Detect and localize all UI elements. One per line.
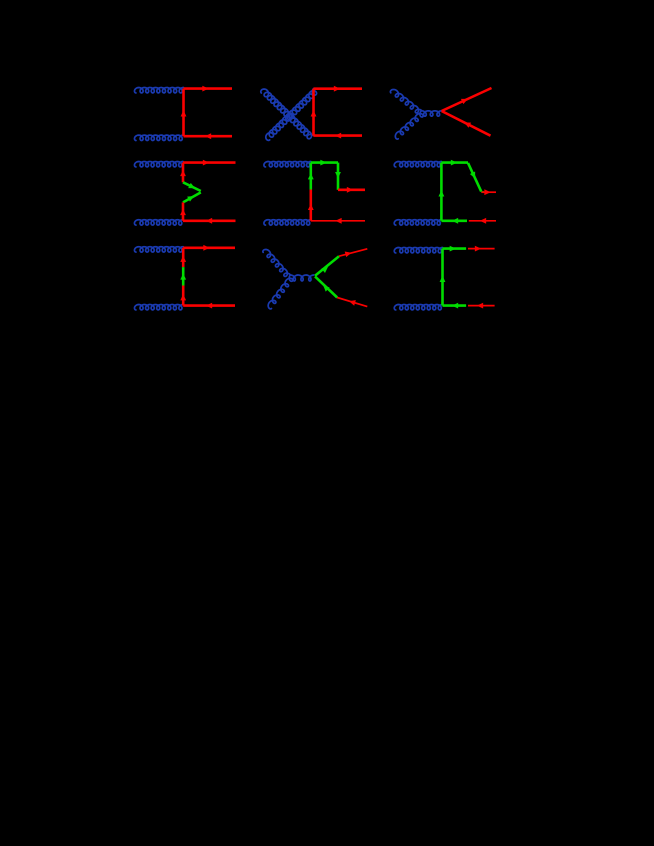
gluon g1 in (R3C2 upper-left) [263, 249, 290, 276]
outgoing antiquark (R1C2 bottom) [314, 134, 363, 137]
arrow down (R2C2 green vertical) [335, 172, 341, 178]
outgoing antiquark (R1C1 bottom) [184, 135, 233, 138]
gluon g2 in (R2C3 bottom) [394, 220, 441, 225]
outgoing quark (R2C2 middle red) [338, 189, 365, 192]
propagator (R2C3 left vertical green) [440, 163, 443, 221]
arrow up (R2C1 vertical upper) [180, 170, 186, 176]
gluon g2 in (R2C2 bottom) [264, 220, 311, 225]
arrow right (R2C3 green top) [451, 160, 457, 166]
propagator lower (R2C2 left vertical red) [309, 190, 312, 221]
arrow up (R1C2 vertical) [311, 110, 317, 116]
quark line top (R2C2 green horizontal) [311, 161, 338, 164]
outgoing antiquark (R3C2 red lower) [337, 298, 367, 307]
arrow left (R1C1 bottom) [205, 133, 211, 139]
quark propagator (R1C1 vertical) [182, 89, 185, 137]
gluon g1 in (R1C2 upper-left to lower-right) [261, 89, 314, 139]
arrow down-right (R2C3 green diagonal) [470, 172, 475, 179]
quark kink lower (R2C1 green) [183, 192, 201, 202]
outgoing quark (R2C3 middle red) [482, 191, 497, 193]
quark propagator lower (R2C1 vertical) [182, 202, 185, 220]
arrow left (R3C1 bottom) [206, 303, 212, 309]
arrow right (R3C1 top) [203, 245, 209, 251]
gluon g2 in (R3C2 lower-left) [268, 275, 293, 309]
arrow right (R2C2 green top) [320, 160, 326, 166]
outgoing quark (R3C1 top) [183, 247, 235, 250]
arrow left (R3C3 bottom red) [477, 303, 483, 309]
gluon g1 in (R2C1 top) [134, 162, 183, 167]
outgoing quark (R2C1 top) [183, 161, 236, 164]
quark line top (R2C3 green horizontal) [441, 161, 468, 164]
gluon g2 in (R1C3 lower-left) [395, 111, 423, 140]
arrow right (R2C2 middle) [347, 187, 353, 193]
arrow right (R3C3 green top) [450, 246, 456, 252]
quark stub (R2C3 green) [481, 191, 484, 193]
quark propagator (R1C2 vertical) [312, 89, 315, 136]
gluon g1 in (R2C3 top) [394, 162, 441, 167]
gluon g2 in (R1C1 bottom) [134, 135, 183, 140]
quark line right (R2C2 green vertical) [337, 163, 340, 190]
gluon g1 in (R1C3 upper-left) [390, 89, 421, 113]
outgoing quark (R3C3 top red) [468, 248, 495, 250]
arrow left (R2C3 green bottom) [452, 218, 458, 224]
arrow left (R2C1 bottom) [206, 218, 212, 224]
arrow up-right (R2C1 kink lower) [187, 196, 194, 202]
quark propagator upper (R2C1 vertical) [182, 163, 185, 183]
quark propagator (R3C3 vertical green) [441, 249, 444, 306]
quark line bottom (R2C3 green horizontal) [441, 220, 467, 223]
arrow up (R3C3 vertical) [440, 276, 446, 282]
arrow up-right (R3C2 green upper) [321, 267, 328, 273]
arrow up-right (R3C2 red upper) [345, 251, 352, 257]
arrow up (R3C1 upper) [180, 256, 186, 262]
arrow up (R2C2 left red) [308, 204, 314, 210]
arrow up (R2C1 vertical lower) [180, 209, 186, 215]
outgoing antiquark (R3C1 bottom) [183, 304, 235, 307]
arrow left (R1C2 bottom) [335, 133, 341, 139]
outgoing antiquark (R2C3 bottom red) [469, 220, 496, 222]
arrow up (R2C3 left green) [439, 190, 445, 196]
arrow right (R1C2 top) [334, 86, 340, 92]
gluon g1 in (R3C3 top) [394, 248, 442, 253]
outgoing antiquark (R2C1 bottom) [183, 220, 236, 223]
outgoing quark (R1C3 upper-right) [442, 88, 492, 111]
gluon g2 in (R3C3 bottom) [394, 305, 442, 310]
propagator upper (R3C1 vertical red) [182, 248, 185, 267]
arrow toward vertex (R3C2 green lower) [323, 285, 330, 291]
arrow right (R1C1 top) [202, 86, 208, 92]
outgoing quark (R3C2 red upper) [339, 249, 367, 256]
quark inner upper (R3C2 green) [315, 256, 339, 276]
outgoing antiquark (R3C3 bottom red) [468, 305, 495, 307]
propagator upper (R2C2 left vertical green) [309, 163, 312, 190]
arrow up (R3C1 lower) [180, 294, 186, 300]
arrow down-right (R2C1 kink upper) [188, 183, 195, 188]
arrow left (R3C3 green bottom) [452, 303, 458, 309]
outgoing antiquark (R2C2 bottom) [311, 220, 365, 222]
gluon g1 in (R2C2 top) [264, 162, 311, 167]
arrow up (R1C1 vertical) [181, 110, 187, 116]
arrow left (R2C3 bottom red) [480, 218, 486, 224]
propagator lower (R3C1 vertical red) [182, 286, 185, 306]
quark inner top (R3C3 green) [443, 247, 467, 250]
gluon g1 in (R3C1 top) [134, 247, 183, 252]
arrow right (R2C1 top) [203, 160, 209, 166]
propagator middle (R3C1 vertical green) [182, 267, 185, 285]
gluon g2 in (R3C1 bottom) [134, 305, 183, 310]
gluon propagator (R1C3 middle) [422, 111, 442, 116]
outgoing quark (R1C1 top) [184, 87, 233, 90]
outgoing quark (R1C2 top) [314, 87, 363, 90]
arrow up-right (R1C3 upper) [461, 99, 468, 104]
arrow toward vertex (R3C2 red lower) [349, 300, 356, 306]
arrow toward vertex (R1C3 lower) [464, 122, 471, 127]
gluon g2 in (R1C2 lower-left to upper-right) [266, 89, 317, 141]
arrow right (R2C3 middle) [484, 189, 490, 195]
arrow left (R2C2 bottom) [335, 218, 341, 224]
quark kink upper (R2C1 green) [183, 182, 201, 191]
quark line diagonal (R2C3 green) [468, 163, 481, 192]
arrow up (R3C1 green) [180, 273, 186, 279]
gluon propagator (R3C2 middle) [290, 275, 314, 281]
arrow right (R3C3 top red) [475, 246, 481, 252]
quark inner bottom (R3C3 green) [443, 304, 467, 307]
outgoing antiquark (R1C3 lower-right) [442, 111, 491, 136]
gluon g2 in (R2C1 bottom) [134, 220, 183, 225]
quark inner lower (R3C2 green) [315, 276, 337, 297]
gluon g1 in (R1C1 top) [134, 88, 183, 93]
arrow up (R2C2 left green) [308, 173, 314, 179]
